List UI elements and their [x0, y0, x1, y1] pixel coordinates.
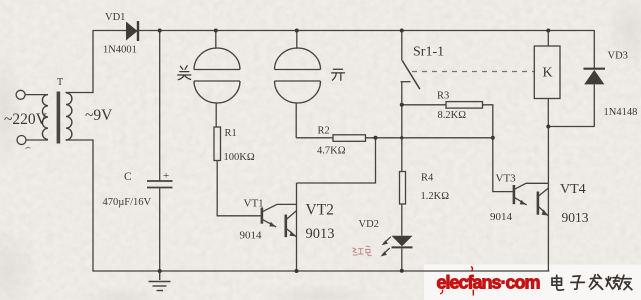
- relay K: [534, 31, 594, 272]
- wire: R2 right to trigger node: [366, 137, 493, 139]
- char fa: [589, 275, 602, 290]
- svg-text:100KΩ: 100KΩ: [224, 152, 255, 163]
- transistor VT3: [514, 183, 549, 205]
- svg-text:R4: R4: [421, 173, 434, 184]
- diode VD3: [584, 31, 606, 127]
- resistor R4: [400, 172, 406, 205]
- watermark dianzifashaoyou (Chinese: electronics fan): [552, 275, 632, 291]
- svg-text:T: T: [57, 77, 63, 88]
- svg-text:VT4: VT4: [560, 182, 586, 197]
- transformer secondary winding: [66, 93, 72, 140]
- svg-text:4.7KΩ: 4.7KΩ: [317, 146, 346, 157]
- svg-text:1N4001: 1N4001: [103, 45, 137, 56]
- node: rail/plate2: [295, 29, 299, 33]
- wire: K bottom to VD3 anode: [548, 126, 594, 128]
- wire: left rail bottom segment (secondary bottom to ground rail): [66, 140, 93, 271]
- node: ground rail / cap: [158, 269, 162, 273]
- char shao: [606, 275, 620, 289]
- svg-text:VD2: VD2: [359, 219, 379, 230]
- node: rail/relay: [546, 29, 550, 33]
- terminal: AC input bottom: [17, 136, 26, 145]
- wire: bottom ground rail: [93, 270, 549, 272]
- node: rail/switch: [400, 29, 404, 33]
- svg-text:8.2KΩ: 8.2KΩ: [438, 110, 467, 121]
- char you: [619, 275, 632, 290]
- transistor VT4: [538, 188, 549, 216]
- node: ground rail / LED: [400, 269, 404, 273]
- svg-text:9013: 9013: [306, 226, 335, 242]
- switch Sr1-1: [401, 31, 420, 172]
- label kai (Chinese: on): [332, 69, 345, 80]
- node: relay bottom / VD3: [546, 125, 550, 129]
- touch plate ON (kai): [275, 31, 321, 138]
- wire: primary bottom lead: [26, 139, 48, 141]
- label guan (Chinese: off): [178, 66, 191, 80]
- LED emission arrows: [381, 237, 391, 257]
- svg-text:~220V: ~220V: [4, 111, 48, 128]
- wire: relay actuation dashed link: [412, 71, 534, 73]
- resistor R1: [214, 127, 261, 216]
- diode VD1: [126, 21, 138, 41]
- svg-text:VT2: VT2: [306, 202, 334, 219]
- svg-text:9013: 9013: [562, 210, 589, 225]
- wire: K bottom down to VT3/VT4 collectors and VT4 emitter to rail: [547, 127, 549, 272]
- node: rail/plate1: [214, 29, 218, 33]
- wire: left rail top segment (secondary top to rail): [66, 31, 93, 93]
- touch plate OFF (guan): [194, 31, 240, 128]
- svg-text:VD3: VD3: [608, 51, 628, 62]
- char dian: [552, 275, 564, 290]
- svg-text:K: K: [543, 66, 553, 81]
- node: trigger node right: [491, 136, 495, 140]
- svg-text:1N4148: 1N4148: [604, 107, 638, 118]
- wire: top supply rail: [93, 30, 594, 32]
- wire: primary top lead: [25, 94, 48, 96]
- svg-text:+: +: [163, 170, 169, 182]
- svg-text:R3: R3: [437, 91, 449, 102]
- wire: trigger node down to VT2 collector: [297, 138, 376, 271]
- node: switch bottom / R3: [400, 103, 404, 107]
- node: trigger node center: [400, 136, 403, 139]
- node: ground rail / VT2 emitter: [295, 269, 299, 273]
- svg-text:Sr1-1: Sr1-1: [413, 45, 444, 60]
- svg-text:VT3: VT3: [496, 173, 517, 185]
- svg-text:9014: 9014: [240, 230, 263, 242]
- svg-text:R2: R2: [318, 126, 330, 137]
- svg-text:470µF/16V: 470µF/16V: [103, 197, 152, 208]
- resistor R2: [296, 135, 493, 142]
- capacitor C plates: [147, 180, 173, 182]
- svg-text:R1: R1: [225, 128, 237, 139]
- transformer T: [16, 90, 72, 144]
- svg-text:VT1: VT1: [244, 198, 264, 210]
- transistor VT2: [286, 211, 297, 238]
- svg-text:~9V: ~9V: [85, 107, 113, 124]
- transistor VT1: [262, 204, 297, 227]
- ground: [149, 271, 171, 291]
- watermark background band (decorative): [424, 265, 641, 300]
- label hongse (Chinese: red): [353, 246, 371, 255]
- svg-text:VD1: VD1: [105, 12, 125, 23]
- terminal: AC input top: [16, 90, 25, 99]
- wire: node to VT3 base: [493, 138, 514, 192]
- char zi: [571, 276, 585, 289]
- wire: filter cap branch: [147, 31, 173, 272]
- ac squiggle mark: [26, 147, 31, 148]
- svg-text:9014: 9014: [490, 211, 513, 223]
- svg-text:C: C: [124, 171, 132, 183]
- node: rail/cap junction top: [158, 29, 162, 33]
- transformer primary winding: [42, 95, 48, 140]
- LED VD2: [381, 204, 413, 271]
- resistor R3: [402, 102, 493, 138]
- svg-text:1.2KΩ: 1.2KΩ: [421, 191, 450, 202]
- node: trigger node left: [374, 136, 378, 140]
- svg-text:elecfans·com: elecfans·com: [437, 273, 540, 293]
- transformer core: [57, 92, 61, 144]
- watermark elecfans.com: [437, 267, 540, 296]
